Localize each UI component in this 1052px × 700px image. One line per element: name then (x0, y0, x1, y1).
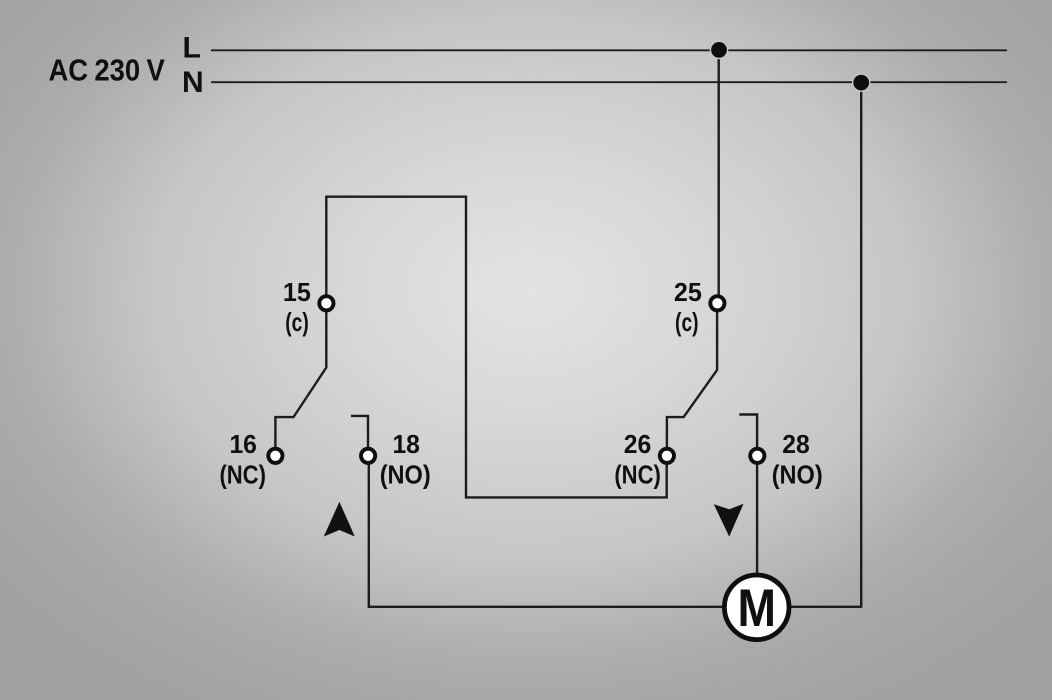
svg-text:25: 25 (674, 277, 702, 307)
up arrow (direction indicator) (324, 502, 355, 537)
wire: terminal 18 down to bottom run to motor and N branch (369, 464, 861, 607)
svg-text:26: 26 (624, 429, 652, 459)
svg-text:L: L (183, 32, 201, 65)
wire: terminal 28 down to motor (756, 464, 758, 580)
wire: bridge from contact 15 over to terminal 26 (top bracket + bottom run) (326, 197, 666, 498)
node: junction on L rail (710, 41, 729, 60)
wire: N rail (211, 81, 1007, 83)
svg-text:(NC): (NC) (219, 459, 266, 489)
node: junction on N rail (852, 73, 871, 92)
lead of terminal 18 (351, 416, 368, 447)
svg-text:N: N (182, 66, 204, 99)
terminal 18 (NO) (361, 449, 375, 463)
svg-text:(NC): (NC) (614, 459, 661, 489)
terminal 16 (NC) (268, 449, 282, 463)
svg-text:M: M (737, 579, 776, 638)
svg-text:AC 230 V: AC 230 V (49, 54, 166, 88)
svg-text:(NO): (NO) (380, 459, 431, 489)
lead of terminal 28 (739, 415, 757, 448)
terminal 28 (NO) (750, 449, 764, 463)
terminal 25 (c) (710, 296, 724, 310)
svg-text:18: 18 (392, 429, 420, 459)
switch blade 15->16 (left changeover) (275, 312, 326, 448)
svg-text:28: 28 (782, 429, 810, 459)
wire: N rail to motor (right vertical) (860, 82, 862, 608)
motor M1 (724, 575, 789, 640)
terminal 26 (NC) (660, 449, 674, 463)
svg-text:16: 16 (229, 429, 257, 459)
terminal 15 (c) (319, 296, 333, 310)
down arrow (direction indicator) (714, 504, 744, 537)
svg-text:(c): (c) (675, 307, 699, 337)
svg-text:(c): (c) (285, 307, 309, 337)
svg-text:15: 15 (283, 277, 311, 307)
svg-text:(NO): (NO) (772, 459, 823, 489)
wire: L rail (211, 49, 1007, 51)
wire: L rail to contact 25 (vertical drop) (718, 50, 720, 294)
switch blade 25->26 (right changeover) (667, 312, 717, 448)
